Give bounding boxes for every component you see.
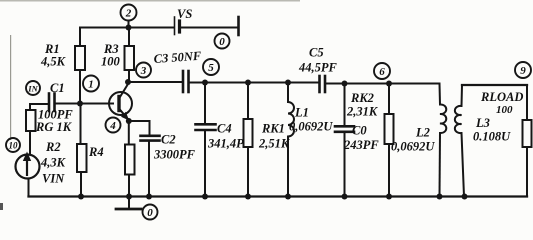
svg-text:R2: R2 [45, 140, 61, 154]
svg-text:C5: C5 [309, 46, 324, 60]
svg-text:4,3K: 4,3K [40, 156, 67, 170]
svg-text:L3: L3 [475, 116, 490, 130]
svg-text:6: 6 [379, 66, 385, 78]
svg-text:0: 0 [219, 36, 225, 48]
svg-text:C1: C1 [50, 81, 65, 95]
svg-text:C4: C4 [217, 122, 232, 136]
svg-text:341,4P: 341,4P [207, 137, 244, 151]
svg-text:RK2: RK2 [350, 91, 374, 105]
svg-text:R4: R4 [88, 145, 104, 159]
svg-text:L2: L2 [415, 126, 430, 140]
svg-text:3300PF: 3300PF [153, 148, 196, 162]
svg-text:2: 2 [125, 8, 132, 20]
svg-text:4,5K: 4,5K [40, 55, 67, 69]
svg-text:10: 10 [9, 141, 19, 151]
svg-text:C0: C0 [352, 124, 367, 138]
svg-text:RLOAD: RLOAD [480, 90, 523, 104]
svg-text:4: 4 [109, 120, 116, 132]
svg-text:VIN: VIN [42, 172, 65, 186]
svg-text:2,51K: 2,51K [258, 137, 291, 151]
svg-text:3: 3 [140, 65, 147, 77]
svg-text:0,0692U: 0,0692U [391, 140, 435, 154]
svg-text:100: 100 [101, 55, 121, 69]
svg-text:C2: C2 [161, 133, 176, 147]
svg-text:1: 1 [88, 79, 94, 91]
svg-text:RK1: RK1 [261, 122, 285, 136]
svg-text:IN: IN [27, 84, 38, 94]
svg-text:5: 5 [208, 62, 214, 74]
svg-text:44,5PF: 44,5PF [298, 61, 338, 75]
svg-text:243PF: 243PF [343, 138, 379, 152]
svg-text:0.108U: 0.108U [473, 130, 511, 144]
svg-text:9: 9 [520, 65, 526, 77]
svg-text:2,31K: 2,31K [346, 105, 379, 119]
svg-text:100: 100 [496, 104, 513, 116]
svg-text:0: 0 [147, 207, 153, 219]
svg-text:L1: L1 [294, 106, 309, 120]
svg-text:0,0692U: 0,0692U [289, 120, 333, 134]
svg-text:RG 1K: RG 1K [35, 120, 73, 134]
svg-text:VS: VS [177, 7, 192, 21]
